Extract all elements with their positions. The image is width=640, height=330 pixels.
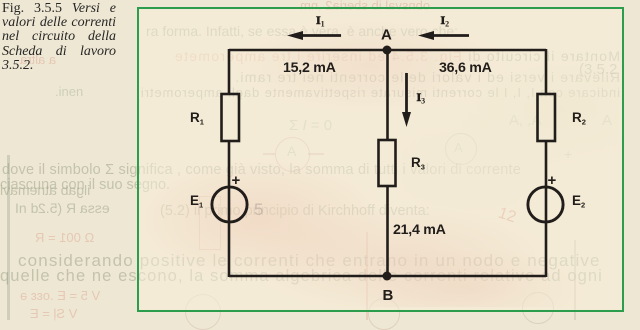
svg-text:+: + xyxy=(232,172,241,189)
resistor R3 xyxy=(379,140,396,186)
current arrow I3 (pointing down) xyxy=(402,73,411,127)
resistor R1 xyxy=(222,94,240,141)
svg-text:A: A xyxy=(381,27,392,44)
svg-text:21,4 mA: 21,4 mA xyxy=(393,222,446,238)
battery E1 (circle source symbol) xyxy=(212,187,247,222)
label R2 xyxy=(572,110,586,126)
node B label xyxy=(383,287,394,304)
svg-text:I3: I3 xyxy=(417,90,426,106)
svg-text:R3: R3 xyxy=(411,155,425,171)
current value label 36,6 mA xyxy=(439,60,492,76)
label E1 xyxy=(190,193,203,209)
wire middle branch lower segment xyxy=(386,185,389,277)
current label I2 xyxy=(441,13,450,29)
current arrow I1 (pointing left) xyxy=(287,31,341,40)
label R3 xyxy=(411,155,425,171)
node A label xyxy=(381,27,392,44)
wire middle branch upper segment xyxy=(386,49,389,141)
current label I1 xyxy=(316,13,325,29)
battery E2 (circle source symbol) xyxy=(528,187,563,222)
current label I3 xyxy=(417,90,426,106)
svg-text:E1: E1 xyxy=(190,193,203,209)
wire right branch upper segment xyxy=(545,49,548,95)
wire right branch lower segment (passes through E2) xyxy=(545,140,548,277)
svg-text:R1: R1 xyxy=(190,110,204,126)
current value label 21,4 mA xyxy=(393,222,446,238)
current value label 15,2 mA xyxy=(283,60,336,76)
svg-text:36,6 mA: 36,6 mA xyxy=(439,60,492,76)
polarity plus sign of E1 xyxy=(232,172,241,189)
node A junction dot xyxy=(383,46,392,55)
node B junction dot xyxy=(383,272,392,281)
wire left branch lower segment (passes through E1) xyxy=(228,140,231,277)
svg-text:E2: E2 xyxy=(572,193,585,209)
svg-text:B: B xyxy=(383,287,394,304)
wire bottom bus from left branch to right branch through node B xyxy=(229,275,546,278)
svg-text:+: + xyxy=(548,172,557,189)
label E2 xyxy=(572,193,585,209)
wire top bus from left branch to right branch through node A xyxy=(229,49,546,52)
polarity plus sign of E2 xyxy=(548,172,557,189)
svg-text:15,2 mA: 15,2 mA xyxy=(283,60,336,76)
svg-text:I2: I2 xyxy=(441,13,450,29)
resistor R2 xyxy=(538,94,556,141)
current arrow I2 (pointing left) xyxy=(418,31,469,40)
wire left branch upper segment xyxy=(228,49,231,95)
label R1 xyxy=(190,110,204,126)
svg-text:I1: I1 xyxy=(316,13,325,29)
svg-text:R2: R2 xyxy=(572,110,586,126)
